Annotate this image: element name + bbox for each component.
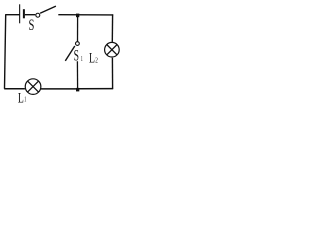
- wire: bottom right segment: [79, 88, 113, 90]
- wire: right side upper (corner to lamp L2): [111, 14, 113, 42]
- label L2: [89, 49, 98, 66]
- switch S1 pivot circle: [76, 42, 80, 46]
- svg-text:1: 1: [81, 56, 83, 63]
- wire: left side vertical: [5, 15, 6, 89]
- lamp L1 cross: [28, 81, 39, 92]
- wire: bottom left segment (lamp L1 to corner): [4, 88, 25, 90]
- svg-text:S: S: [74, 47, 79, 64]
- label S1: [74, 47, 83, 64]
- wire: right side lower (lamp L2 to corner): [111, 58, 113, 89]
- wire: middle branch lower (switch S1 to bottom junction): [76, 61, 78, 88]
- wire: switch S to top-right corner: [58, 14, 113, 16]
- switch S blade (open, up-right): [40, 6, 56, 13]
- lamp L2 cross: [107, 45, 117, 55]
- junction node (top): [76, 14, 79, 18]
- svg-text:S: S: [29, 16, 35, 34]
- wire: battery to switch S: [25, 14, 35, 16]
- label L1: [18, 89, 26, 106]
- svg-text:L: L: [18, 89, 24, 106]
- battery cell: long positive plate: [19, 4, 21, 23]
- svg-text:2: 2: [95, 57, 98, 65]
- junction node (bottom): [76, 88, 79, 92]
- wire: top-left corner to battery: [5, 14, 19, 16]
- lamp L2 circle: [105, 42, 120, 57]
- svg-text:L: L: [89, 49, 95, 66]
- lamp L1 circle: [25, 79, 41, 95]
- svg-text:1: 1: [24, 96, 26, 103]
- wire: bottom middle segment (junction to lamp L1): [41, 88, 77, 90]
- switch S1 blade (open, down-left): [65, 46, 75, 61]
- switch S pivot circle: [36, 13, 40, 17]
- battery cell: short negative plate: [23, 9, 25, 18]
- wire: middle branch upper (top junction to switch S1): [77, 17, 79, 42]
